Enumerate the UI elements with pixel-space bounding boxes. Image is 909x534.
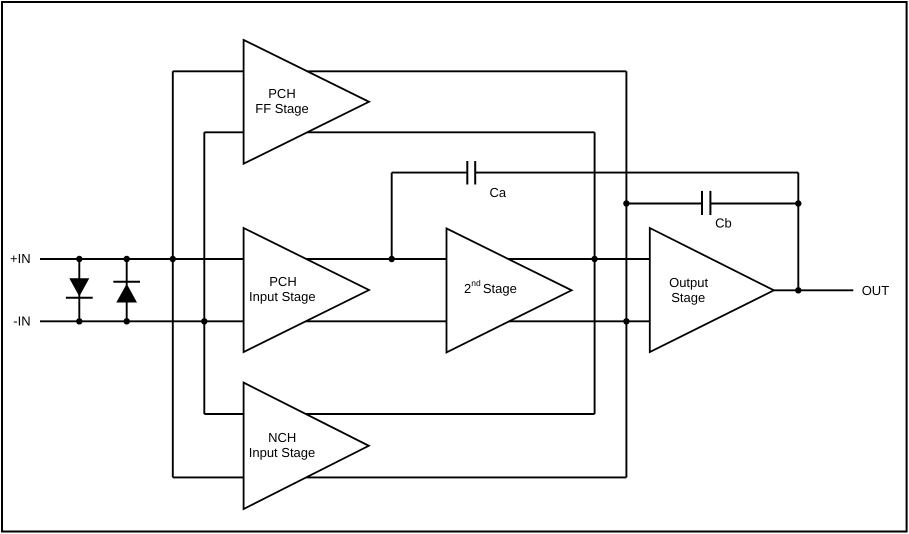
wire Cb line left of capacitor: [626, 203, 701, 205]
node junction dot Ca tap on +IN rail: [389, 256, 395, 262]
node junction dot +IN branch vertical: [170, 256, 176, 262]
svg-text:OUT: OUT: [862, 283, 890, 298]
wire FF stage lower line: [204, 131, 594, 133]
wire NCH stage upper line: [204, 413, 594, 415]
svg-text:Output: Output: [669, 275, 708, 290]
node junction dot Cb left: [623, 200, 629, 206]
node junction dot D1 on +IN rail: [76, 256, 82, 262]
wire Cb line right of capacitor: [711, 203, 798, 205]
svg-text:Input Stage: Input Stage: [249, 445, 316, 460]
wire vertical -IN to FF bottom and NCH top: [203, 132, 205, 414]
wire vertical +IN to FF top and NCH bottom: [172, 71, 174, 477]
capacitor Ca: [467, 161, 475, 185]
svg-text:PCH: PCH: [268, 86, 295, 101]
svg-text:FF Stage: FF Stage: [255, 101, 308, 116]
op-amp PCH Input Stage block: [244, 228, 369, 352]
wire Ca left vertical tap: [391, 173, 393, 259]
node junction dot -IN branch vertical: [201, 318, 207, 324]
wire vertical FF lower output to +IN rail junction: [594, 132, 596, 414]
svg-text:Ca: Ca: [490, 185, 507, 200]
wire Ca top line left of capacitor: [392, 172, 467, 174]
svg-text:Input Stage: Input Stage: [249, 289, 316, 304]
wire diode D2 branch: [126, 259, 128, 321]
svg-text:Stage: Stage: [671, 290, 705, 305]
node junction dot D2 on -IN rail: [124, 318, 130, 324]
wire right vertical Ca-Cb to output node: [797, 173, 799, 291]
node junction dot FF lower output on +IN rail: [591, 256, 597, 262]
op-amp NCH Input Stage block: [244, 383, 369, 509]
svg-text:-IN: -IN: [13, 313, 30, 328]
wire Ca top line right of capacitor: [476, 172, 798, 174]
node junction dot output: [795, 287, 801, 293]
wire diode D1 branch: [78, 259, 80, 321]
op-amp 2nd Stage block: [447, 228, 572, 352]
diode D1: [66, 278, 93, 298]
wire output to OUT: [774, 289, 853, 291]
svg-text:PCH: PCH: [269, 274, 296, 289]
wire vertical FF upper output to -IN rail junction: [625, 71, 627, 477]
wire -IN rail: [40, 320, 655, 322]
op-amp Output Stage block: [650, 228, 774, 352]
node junction dot FF upper output on -IN rail: [623, 318, 629, 324]
node junction dot D1 on -IN rail: [76, 318, 82, 324]
op-amp PCH FF Stage block: [244, 40, 369, 164]
wire NCH stage lower line: [173, 476, 627, 478]
wire FF stage upper line: [173, 70, 627, 72]
svg-text:+IN: +IN: [10, 251, 31, 266]
svg-text:NCH: NCH: [268, 430, 296, 445]
diode D2: [113, 282, 140, 303]
node junction dot D2 on +IN rail: [124, 256, 130, 262]
svg-text:Cb: Cb: [715, 216, 732, 231]
node junction dot Cb right: [795, 200, 801, 206]
capacitor Cb: [702, 191, 710, 215]
wire +IN rail: [40, 258, 655, 260]
